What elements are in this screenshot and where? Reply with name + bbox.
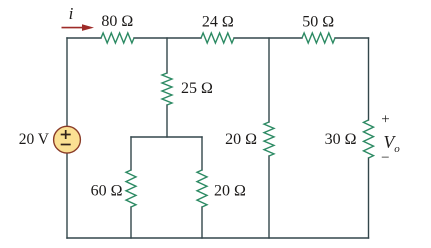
wire 20ohm bottom branch upper [201,137,203,170]
wire bottom rail [67,237,369,239]
svg-text:20 Ω: 20 Ω [225,131,257,148]
svg-text:50 Ω: 50 Ω [302,13,334,30]
svg-text:60 Ω: 60 Ω [91,183,123,200]
wire 20ohm bottom branch lower [201,207,203,238]
resistor 25ohm [162,73,172,105]
resistor 20ohm middle [264,122,274,156]
wire right branch lower [368,158,370,238]
wire 25ohm branch upper [166,38,168,73]
svg-text:i: i [69,4,74,23]
svg-text:20 Ω: 20 Ω [214,183,246,200]
svg-text:80 Ω: 80 Ω [101,13,133,30]
wire top segment 80ohm to node B [134,37,201,39]
svg-text:30 Ω: 30 Ω [325,131,357,148]
resistor 80ohm [101,33,134,43]
resistor 60ohm [126,170,136,207]
resistor 20ohm bottom [197,170,207,207]
wire bridge node E [131,136,202,138]
wire 60ohm branch upper [130,137,132,170]
wire 25ohm branch lower [166,105,168,137]
wire 20ohm middle branch upper [268,38,270,122]
voltage source 20V [54,126,81,153]
svg-text:−: − [381,150,389,166]
wire top segment 50ohm to node D [335,37,369,39]
current arrow i [62,24,95,31]
wire 60ohm branch lower [130,207,132,238]
wire 20ohm middle branch lower [268,156,270,238]
wire top segment node A to 80ohm [67,37,101,39]
wire top segment 24ohm to node C [234,37,302,39]
wire right branch upper [368,38,370,120]
svg-text:25 Ω: 25 Ω [181,80,213,97]
wire left branch with source [66,38,68,238]
svg-text:24 Ω: 24 Ω [202,13,234,30]
svg-text:20 V: 20 V [19,131,50,148]
resistor 30ohm [364,120,374,158]
svg-text:+: + [381,112,389,128]
resistor 24ohm [201,33,234,43]
resistor 50ohm [302,33,335,43]
